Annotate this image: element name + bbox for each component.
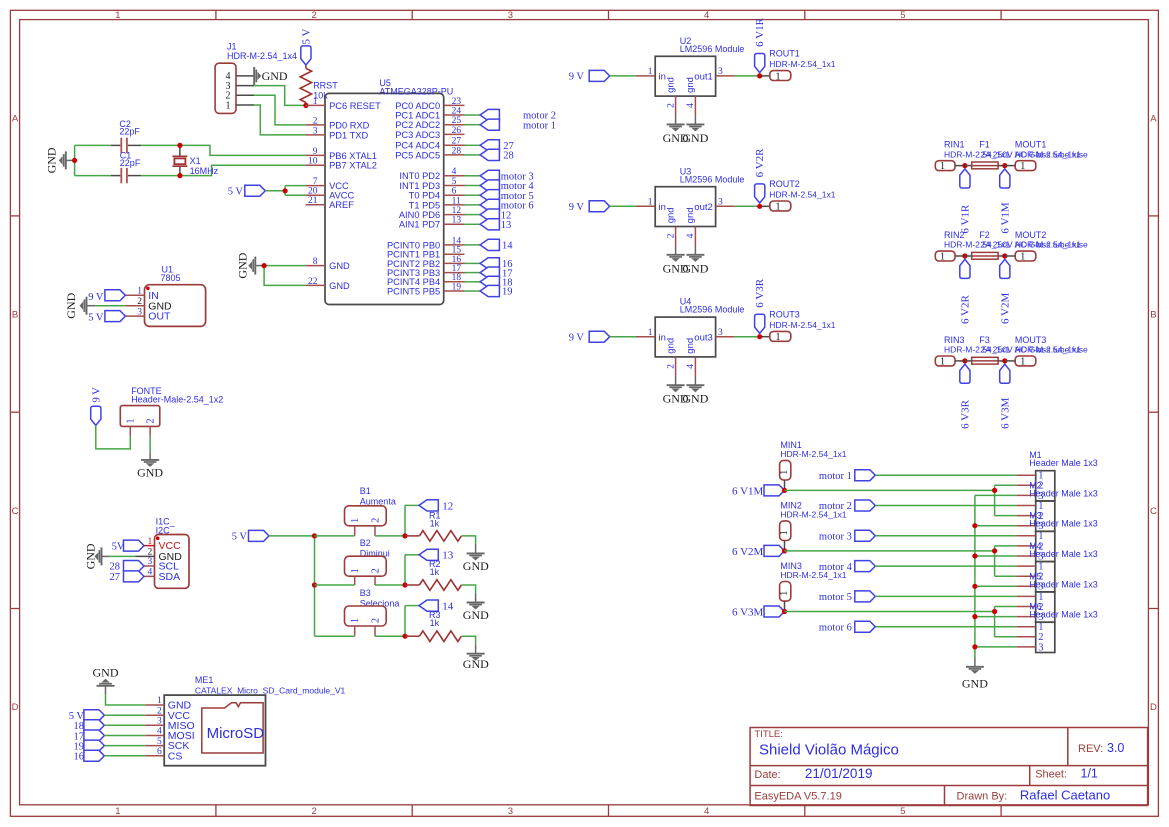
svg-text:1k: 1k [430,618,440,628]
svg-text:Drawn By:: Drawn By: [957,790,1008,802]
pin 3 (M5) [1017,616,1036,618]
svg-text:9 V: 9 V [569,72,585,83]
svg-text:motor 4: motor 4 [819,562,853,573]
svg-text:2: 2 [137,297,142,307]
svg-text:27: 27 [110,572,121,583]
svg-text:LM2596 Module: LM2596 Module [680,305,745,315]
pin 2 gnd (U3) [675,227,677,246]
svg-text:6 V2M: 6 V2M [732,546,763,558]
svg-text:21/01/2019: 21/01/2019 [805,766,873,781]
svg-text:motor 3: motor 3 [819,532,852,543]
power flag 5 V (RRST top) [301,46,311,65]
svg-text:1: 1 [940,251,945,262]
svg-text:X1: X1 [190,156,201,166]
svg-text:1: 1 [350,568,361,573]
svg-text:3: 3 [718,198,723,208]
ground (ME1 gnd) [106,694,146,705]
svg-text:HDR-M-2.54_1x1: HDR-M-2.54_1x1 [1015,149,1081,159]
svg-text:28: 28 [503,151,514,162]
svg-text:PD1 TXD: PD1 TXD [329,130,368,140]
ground (U2 pin 2) [675,115,677,124]
svg-text:6 V1R: 6 V1R [754,17,766,46]
wire motor 1 to M1.1 [875,474,1016,476]
svg-text:5: 5 [900,10,905,21]
svg-text:PC0 ADC0: PC0 ADC0 [395,101,440,111]
wire motor 6 to M6.1 [875,626,1016,628]
svg-text:6 V3M: 6 V3M [999,397,1011,428]
pin 1 IN (U1) [125,294,144,296]
svg-text:4: 4 [157,727,162,737]
svg-text:GND: GND [45,147,59,173]
net flag motor 2 [480,109,499,120]
net flag 6 V1R (fuse row) [960,169,970,188]
net flag 19 [480,285,499,296]
pin 1 PC6 RESET (U5 left) [306,104,325,106]
wire FONTE.1 to 9V [96,425,131,449]
svg-text:1: 1 [126,419,137,424]
pin 5 SCK (ME1) [145,745,164,747]
svg-text:3.0: 3.0 [1107,741,1124,755]
svg-text:1: 1 [775,332,780,343]
wire gnd bus tap [975,525,1017,527]
svg-text:F1: F1 [979,140,990,150]
ground (crystal) [66,159,75,161]
pin 1 (M1) [1017,474,1036,476]
svg-text:ROUT3: ROUT3 [769,310,800,320]
svg-text:LM2596 Module: LM2596 Module [680,44,745,54]
svg-text:HDR-M-2.54_1x1: HDR-M-2.54_1x1 [780,449,846,459]
svg-text:Header Male 1x3: Header Male 1x3 [1029,579,1098,589]
svg-text:1: 1 [1020,251,1025,262]
microSD card outline [202,703,263,753]
wire 9V to U3.in [610,205,636,207]
pin 3 MISO (ME1) [145,724,164,726]
svg-text:4: 4 [452,167,457,177]
svg-text:GND: GND [84,543,98,569]
resistor R1 1k [405,535,419,537]
svg-text:19: 19 [502,287,513,298]
svg-text:GND: GND [463,657,489,671]
wire 6 V2M net [784,550,994,552]
svg-text:2: 2 [666,103,676,108]
wire U5 to net 19 [465,290,481,292]
svg-text:3: 3 [147,557,152,567]
svg-text:Sheet:: Sheet: [1035,769,1067,781]
svg-text:HDR-M-2.54_1x1: HDR-M-2.54_1x1 [769,320,835,330]
wire motor 3 to M3.1 [875,535,1016,537]
svg-text:RIN2: RIN2 [944,230,965,240]
wire U5 to net 14 [465,244,481,246]
node XTAL junctions [177,143,182,148]
wire U5 to net 12 [465,214,481,216]
pin 25 PC2 ADC2 (U5 right) [444,124,465,126]
node RESET junction [303,103,308,108]
ground (U2 pin 4) [694,115,696,124]
pin 3 (M1) [1017,494,1036,496]
pin 3 PD1 TXD (U5 left) [306,134,325,136]
svg-text:9 V: 9 V [569,202,585,213]
pin 3 SCL (I2C) [136,565,155,567]
wire 6 V1M net [784,489,994,491]
pin 28 PC5 ADC5 (U5 right) [444,154,465,156]
svg-text:27: 27 [452,137,462,147]
svg-text:F3: F3 [979,335,990,345]
ground (R2) [475,593,477,602]
svg-text:1: 1 [115,806,120,817]
svg-text:6: 6 [452,187,457,197]
pin 1 (M5) [1017,595,1036,597]
wire XTAL1 rail [75,144,111,146]
svg-text:MOUT3: MOUT3 [1015,335,1047,345]
pin 4 SDA (I2C) [136,575,155,577]
svg-text:3: 3 [157,717,162,727]
pin 2 PD0 RXD (U5 left) [306,124,325,126]
resistor R3 1k [405,635,419,637]
svg-text:14: 14 [442,601,454,613]
pin 23 PC0 ADC0 (U5 right) [444,104,465,106]
svg-text:motor 1: motor 1 [523,120,556,131]
wire XTAL2 rail [75,175,111,177]
svg-text:1: 1 [313,97,318,107]
pin 13 AIN1 PD7 (U5 right) [444,223,465,225]
svg-text:4: 4 [704,806,709,817]
svg-text:PC6 RESET: PC6 RESET [329,101,381,111]
svg-text:RRST: RRST [313,81,338,91]
svg-text:motor 6: motor 6 [819,622,852,633]
pin 1 in (U3) [636,205,655,207]
pin 16 PCINT2 PB2 (U5 right) [444,262,465,264]
svg-text:6 V3R: 6 V3R [754,278,766,307]
svg-text:6 V3M: 6 V3M [732,606,763,618]
pin 17 PCINT3 PB3 (U5 right) [444,272,465,274]
wire motor 5 to M5.1 [875,595,1016,597]
pin 4 MOSI (ME1) [145,735,164,737]
svg-text:3: 3 [718,328,723,338]
wire to flag 12 [405,504,419,506]
svg-text:6 V2M: 6 V2M [999,293,1011,324]
pin 1 VCC (I2C) [136,545,155,547]
pin 11 T1 PD5 (U5 right) [444,204,465,206]
ground (FONTE) [149,453,151,460]
svg-text:PC1 ADC1: PC1 ADC1 [395,110,440,120]
svg-text:1: 1 [350,518,361,523]
net flag 14 [480,239,499,250]
svg-text:Header-Male-2.54_1x2: Header-Male-2.54_1x2 [131,395,223,405]
net flag motor 1 [480,119,499,130]
wire U3.out to ROUT2 [735,205,758,207]
svg-text:14: 14 [502,241,513,252]
pin 2 VCC (ME1) [145,714,164,716]
net flag 6 V2R (fuse row) [960,259,970,278]
svg-text:9: 9 [313,147,318,157]
ground (U3 pin 4) [694,246,696,255]
svg-text:1: 1 [115,10,120,21]
svg-text:ROUT2: ROUT2 [769,179,800,189]
resistor RRST 10k [305,65,307,68]
wire gnd bus tap [975,555,1017,557]
pin 1 GND (ME1) [145,704,164,706]
svg-text:AIN1 PD7: AIN1 PD7 [399,220,440,230]
wire 9V to U4.in [610,336,636,338]
svg-text:10: 10 [308,157,318,167]
svg-text:1: 1 [779,530,790,535]
ground (J1 pin 4) [254,67,261,85]
svg-text:B: B [12,310,18,321]
wire U5 to net motor 6 [465,204,481,206]
svg-text:A: A [12,113,19,124]
pin 21 AREF (U5 left) [306,204,325,206]
svg-text:3: 3 [1038,642,1043,653]
wire R2 to GND [461,585,475,593]
svg-text:5 V: 5 V [300,28,312,44]
pin 14 PCINT0 PB0 (U5 right) [444,244,465,246]
pin 6 CS (ME1) [145,755,164,757]
pin 4 gnd (U2) [694,96,696,115]
svg-text:13: 13 [501,220,512,231]
svg-text:PC3 ADC3: PC3 ADC3 [395,130,440,140]
pin 12 AIN0 PD6 (U5 right) [444,214,465,216]
svg-text:C: C [1150,506,1157,517]
pin 19 PCINT5 PB5 (U5 right) [444,290,465,292]
wire U2.out to ROUT1 [735,75,758,77]
wire FONTE.2 to GND [149,436,151,453]
crystal X1 16MHz [179,145,181,156]
svg-text:1: 1 [147,537,152,547]
wire to flag 13 [405,554,419,556]
net flag 13 [480,219,499,230]
svg-text:HDR-M-2.54_1x1: HDR-M-2.54_1x1 [769,189,835,199]
pin 1 (M4) [1017,565,1036,567]
wire GND to U5.8 and U5.22 [264,265,306,267]
pin 3 (M2) [1017,525,1036,527]
resistor R2 1k [405,584,419,586]
svg-text:F2: F2 [979,230,990,240]
svg-text:GND: GND [93,666,119,680]
svg-text:motor 2: motor 2 [819,501,852,512]
wire 5V rail [269,535,315,537]
svg-text:2: 2 [157,706,162,716]
svg-text:Header Male 1x3: Header Male 1x3 [1029,488,1098,498]
svg-text:21: 21 [308,196,318,206]
net flag 6 V3R [755,314,765,333]
svg-text:2: 2 [371,518,382,523]
svg-text:GND: GND [64,292,78,318]
svg-text:5: 5 [452,177,457,187]
svg-text:GND: GND [329,281,350,291]
svg-text:GND: GND [682,392,708,406]
wire U5 to net 16 [465,262,481,264]
svg-text:AIN0 PD6: AIN0 PD6 [399,210,440,220]
ground (R3) [475,644,477,653]
net flag 16 [480,258,499,269]
title block [750,728,1148,806]
svg-text:26: 26 [452,126,462,136]
pin 2 GND (I2C) [136,555,155,557]
svg-text:2: 2 [311,10,316,21]
net flag 6 V3M (fuse row) [1000,364,1010,383]
pin 3 out3 (U4) [716,336,735,338]
svg-text:5 V: 5 V [232,532,248,543]
svg-text:B: B [1150,310,1156,321]
svg-text:GND: GND [463,559,489,573]
svg-text:13: 13 [452,216,462,226]
svg-text:4: 4 [686,364,696,369]
svg-text:D: D [12,702,19,713]
wire U5 to net 18 [465,281,481,283]
svg-text:1: 1 [1020,356,1025,367]
svg-text:GND: GND [236,252,250,278]
svg-text:GND: GND [262,69,288,83]
svg-text:25: 25 [452,116,462,126]
svg-text:2: 2 [371,618,382,623]
net flag 17 [480,267,499,278]
svg-text:CS: CS [168,750,183,762]
net flag 13 [419,549,438,560]
net flag 14 [419,600,438,611]
wire J1.1 to PD1 [254,105,305,135]
net flag 12 [419,500,438,511]
svg-text:9 V: 9 V [88,292,104,303]
svg-text:1k: 1k [430,518,440,528]
svg-text:MOUT1: MOUT1 [1015,140,1047,150]
wire 5V to VCC/AVCC [265,190,285,192]
svg-text:Header Male 1x3: Header Male 1x3 [1029,519,1098,529]
svg-text:22: 22 [308,277,318,287]
svg-text:1: 1 [940,161,945,172]
wire bus (B2) [315,584,355,586]
svg-text:GND: GND [962,677,988,691]
pin 2 (M3) [1017,545,1036,547]
svg-text:RIN3: RIN3 [944,335,965,345]
svg-text:Date:: Date: [754,769,780,781]
pin 1 (M2) [1017,505,1036,507]
svg-text:13: 13 [442,550,454,562]
svg-text:16: 16 [74,752,85,763]
net flag motor 4 [480,180,499,191]
pin 6 T0 PD4 (U5 right) [444,194,465,196]
svg-text:1: 1 [648,328,653,338]
pin 3 (M3) [1017,555,1036,557]
wire left vertical (cap gnd rail) [74,145,76,175]
pin 3 out1 (U2) [716,75,735,77]
svg-text:1: 1 [775,71,780,82]
pin 3 out2 (U3) [716,205,735,207]
svg-text:ATMEGA328P-PU: ATMEGA328P-PU [379,87,453,97]
ground (U4 pin 2) [675,376,677,385]
svg-text:7: 7 [313,177,318,187]
pin 3 (M4) [1017,585,1036,587]
wire gnd bus tap [975,616,1017,618]
net flag 6 V2M (fuse row) [1000,259,1010,278]
svg-text:AVCC: AVCC [329,191,354,201]
wire 6 V3M net [784,611,994,613]
pin 8 GND (U5 left) [306,265,325,267]
svg-text:T1 PD5: T1 PD5 [409,200,441,210]
svg-text:PC4 ADC4: PC4 ADC4 [395,141,440,151]
wire motor 2 to M2.1 [875,505,1016,507]
pin 1 in (U4) [636,336,655,338]
svg-text:PC2 ADC2: PC2 ADC2 [395,120,440,130]
svg-text:11: 11 [452,196,461,206]
wire gnd bus tap [975,585,1017,587]
net flag motor 6 [480,199,499,210]
svg-text:EasyEDA V5.7.19: EasyEDA V5.7.19 [754,790,841,802]
pin 2 gnd (U2) [675,96,677,115]
ground (R1) [475,544,477,553]
svg-text:Rafael Caetano: Rafael Caetano [1020,787,1110,802]
svg-text:MicroSD: MicroSD [207,725,265,742]
svg-text:SDA: SDA [159,571,181,583]
net flag 6 V3R (fuse row) [960,364,970,383]
svg-text:5 V: 5 V [228,187,244,198]
pin 9 PB6 XTAL1 (U5 left) [306,154,325,156]
net flag 12 [480,209,499,220]
svg-text:out1: out1 [694,72,713,83]
net flag motor 5 [480,190,499,201]
pin 7 VCC (U5 left) [306,185,325,187]
svg-text:6: 6 [157,747,162,757]
wire motor 4 to M4.1 [875,565,1016,567]
svg-text:OUT: OUT [148,311,171,323]
pin 20 AVCC (U5 left) [306,194,325,196]
pin 2 gnd (U4) [675,357,677,376]
pin 1 (M6) [1017,626,1036,628]
svg-text:D: D [1150,702,1157,713]
wire U5 to net 13 [465,223,481,225]
svg-text:motor 1: motor 1 [819,471,852,482]
svg-text:23: 23 [452,97,462,107]
net flag motor 3 [480,170,499,181]
svg-text:1: 1 [775,202,780,213]
svg-text:GND: GND [682,261,708,275]
svg-text:2: 2 [666,364,676,369]
svg-text:24: 24 [452,106,462,116]
pin 2 GND (U1) [125,305,144,307]
svg-text:19: 19 [452,282,462,292]
wire U5 to net 17 [465,272,481,274]
svg-text:16MHz: 16MHz [190,166,219,176]
wire J1.2 to PD0 [254,95,305,125]
net flag 27 [480,140,499,151]
svg-text:12: 12 [452,206,462,216]
svg-text:GND: GND [463,608,489,622]
pin 3 OUT (U1) [125,315,144,317]
wire R3 to GND [461,636,475,644]
svg-text:3: 3 [137,307,142,317]
IC U5 ATMEGA328P-PU [325,93,444,304]
pin 27 PC4 ADC4 (U5 right) [444,144,465,146]
ground (U4 pin 4) [694,376,696,385]
svg-text:GND: GND [137,466,163,480]
ground (I2C gnd) [109,555,136,557]
svg-text:gnd: gnd [685,77,696,93]
svg-text:6 V2R: 6 V2R [960,295,972,324]
svg-text:4: 4 [686,233,696,238]
svg-text:REV:: REV: [1078,743,1103,755]
svg-text:2: 2 [145,419,156,424]
svg-text:3: 3 [508,806,513,817]
svg-text:1: 1 [648,198,653,208]
net flag 28 [480,149,499,160]
svg-text:4: 4 [147,568,152,578]
wire U5 to net motor 5 [465,194,481,196]
wire U5 to net motor 2 [465,114,481,116]
svg-text:28: 28 [452,146,462,156]
svg-text:out2: out2 [694,202,713,213]
svg-text:9 V: 9 V [91,387,102,403]
svg-text:1: 1 [350,618,361,623]
svg-text:6 V2R: 6 V2R [754,148,766,177]
